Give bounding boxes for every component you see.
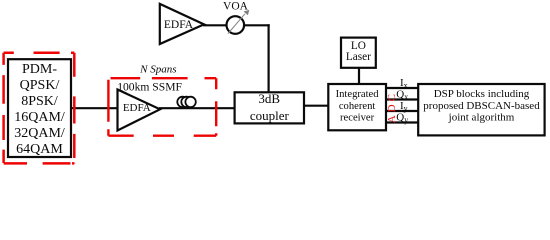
- svg-text:Laser: Laser: [346, 51, 371, 63]
- svg-text:EDFA: EDFA: [123, 102, 151, 114]
- svg-text:32QAM/: 32QAM/: [14, 126, 65, 141]
- svg-text:receiver: receiver: [340, 113, 375, 124]
- transmitter box: [8, 59, 71, 157]
- fiber coil: [177, 97, 196, 107]
- wire: [304, 105, 328, 107]
- transmitter label: [14, 62, 65, 157]
- svg-text:3dB: 3dB: [258, 91, 280, 106]
- svg-text:coupler: coupler: [250, 108, 290, 123]
- svg-text:joint algorithm: joint algorithm: [448, 111, 515, 123]
- LO laser box: [341, 38, 376, 68]
- signal line Iy: [386, 110, 419, 112]
- wire: [268, 24, 270, 93]
- signal line Qy: [386, 121, 419, 123]
- VOA arrow: [228, 14, 245, 34]
- signal line Ix: [386, 87, 419, 89]
- svg-text:EDFA: EDFA: [164, 19, 194, 31]
- wire: [159, 107, 235, 109]
- svg-text:QPSK/: QPSK/: [20, 78, 60, 93]
- svg-text:VOA: VOA: [223, 1, 249, 13]
- svg-text:64QAM: 64QAM: [16, 142, 63, 157]
- wire: [71, 107, 118, 109]
- EDFA amplifier (span): [118, 90, 161, 131]
- svg-text:PDM-: PDM-: [22, 62, 57, 77]
- EDFA amplifier (noise source): [160, 4, 204, 44]
- transmitter dashed box: [4, 53, 75, 164]
- VOA attenuator: [227, 16, 245, 34]
- svg-text:Integrated: Integrated: [336, 89, 380, 100]
- integrated coherent receiver box: [328, 84, 386, 130]
- svg-text:LO: LO: [351, 40, 366, 52]
- svg-text:proposed DBSCAN-based: proposed DBSCAN-based: [423, 100, 540, 112]
- wire: [203, 24, 227, 26]
- svg-text:DSP blocks including: DSP blocks including: [434, 88, 530, 100]
- DSP box: [418, 84, 544, 135]
- wire: [244, 24, 270, 26]
- svg-text:16QAM/: 16QAM/: [14, 110, 65, 125]
- wire: [358, 68, 360, 85]
- svg-text:100km SSMF: 100km SSMF: [117, 80, 182, 93]
- svg-text:N Spans: N Spans: [139, 63, 176, 75]
- svg-text:8PSK/: 8PSK/: [21, 94, 58, 109]
- signal line Qx: [386, 98, 419, 100]
- N spans dashed box: [108, 78, 216, 136]
- 3dB coupler box: [235, 92, 304, 123]
- svg-text:coherent: coherent: [339, 101, 376, 112]
